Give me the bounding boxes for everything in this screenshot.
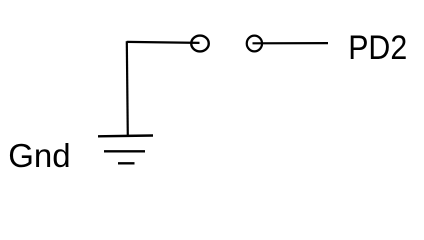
wire — [253, 42, 329, 44]
switch contact circle right — [247, 36, 262, 52]
svg-text:PD2: PD2 — [348, 29, 407, 67]
ground — [98, 136, 153, 164]
wire — [127, 42, 200, 43]
svg-text:Gnd: Gnd — [8, 137, 70, 174]
switch contact circle left — [191, 36, 209, 52]
wire — [127, 41, 128, 136]
